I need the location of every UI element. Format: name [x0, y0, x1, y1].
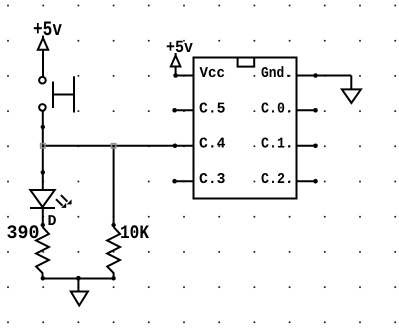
wire junction B down to R2 [113, 146, 115, 227]
pin C.3 stub [172, 179, 193, 184]
ground G2 [342, 89, 361, 103]
pin Gnd stub and wire [297, 73, 352, 89]
wire switch to junction [41, 112, 45, 146]
svg-text:+5v: +5v [166, 39, 193, 58]
svg-text:+5v: +5v [33, 19, 62, 42]
svg-text:Gnd.: Gnd. [261, 65, 292, 82]
switch S1 pushbutton [39, 76, 74, 112]
pin Vcc stub [173, 73, 193, 78]
resistor R1 390 [36, 227, 49, 279]
ground G1 [71, 279, 88, 306]
svg-text:10K: 10K [120, 222, 149, 244]
pin C.0 stub [297, 108, 318, 113]
svg-text:C.4: C.4 [199, 136, 226, 153]
svg-text:D: D [48, 213, 57, 230]
resistor R2 10K [107, 223, 120, 279]
svg-text:Vcc: Vcc [200, 65, 226, 82]
wire junction to IC C.4 [43, 145, 194, 147]
svg-text:C.2.: C.2. [261, 171, 293, 188]
pin C.2 stub [297, 179, 318, 184]
pin C.4 end dot [173, 144, 178, 149]
node junction A [41, 144, 45, 148]
svg-text:390: 390 [7, 222, 40, 244]
svg-text:C.0.: C.0. [261, 100, 293, 117]
IC U1 notch [238, 58, 255, 67]
IC U1 body [194, 58, 297, 199]
wire LED to R1 [41, 208, 45, 227]
LED D [30, 190, 72, 208]
pin C.1 stub [297, 144, 318, 149]
node junction B [111, 144, 115, 148]
svg-text:C.3: C.3 [199, 171, 226, 188]
power +5v arrow P2 [171, 53, 181, 76]
node junction C [76, 276, 81, 281]
wire bottom rail [41, 276, 116, 280]
power +5v arrow P1 [38, 36, 48, 77]
wire junction A down to LED [41, 146, 45, 190]
svg-text:C.5: C.5 [199, 100, 226, 117]
pin C.5 stub [172, 108, 193, 113]
svg-text:C.1.: C.1. [261, 136, 293, 153]
